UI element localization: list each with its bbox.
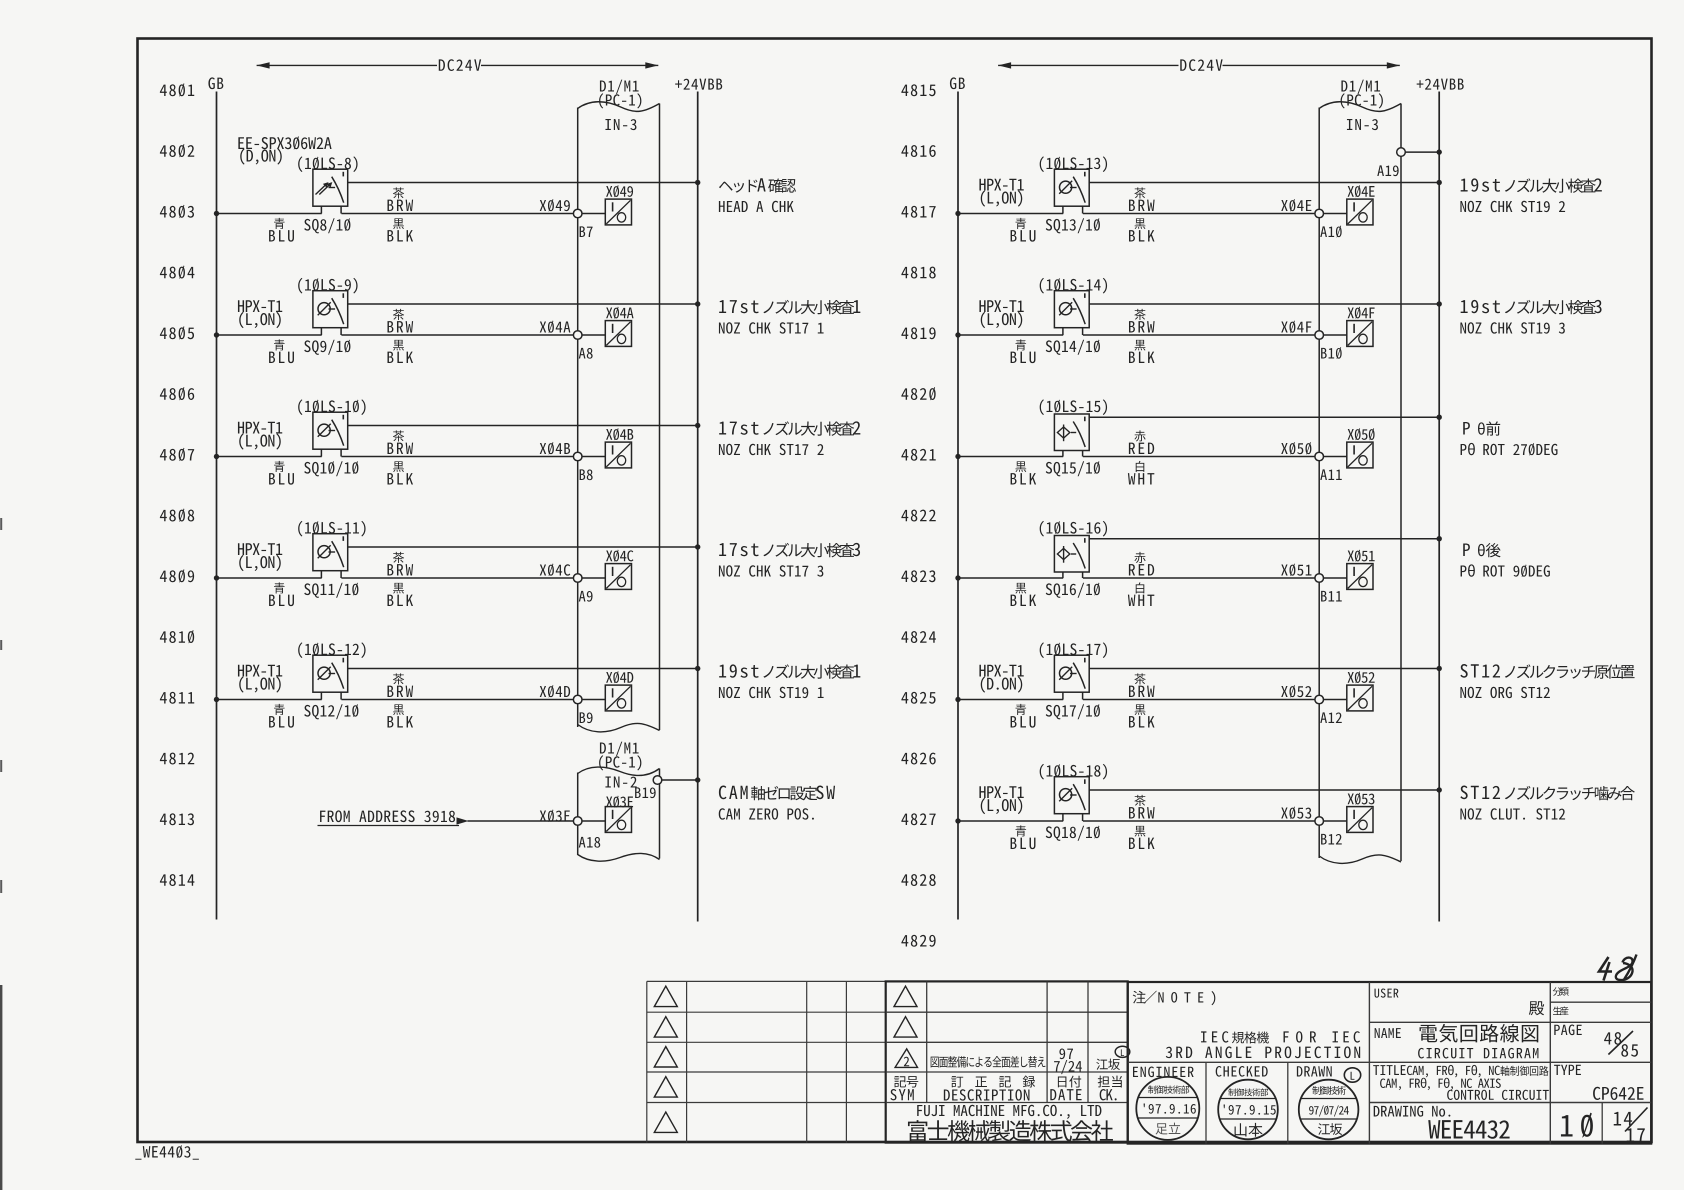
sensor SQ18/10 ((10LS-18)) bbox=[1054, 777, 1089, 814]
node line number 4826 bbox=[901, 753, 935, 765]
net description NOZ CHK ST17 2 bbox=[719, 422, 758, 435]
wire color label 茶/BRW bbox=[1134, 309, 1145, 320]
class cells 分類 生産 bbox=[1553, 987, 1569, 996]
wire color label 茶/BRW bbox=[1134, 795, 1145, 806]
wire rung SQ10/10 left segment bbox=[217, 456, 322, 458]
wire rung SQ17/10 left segment bbox=[958, 699, 1063, 701]
label HPX-T1 bbox=[238, 665, 282, 677]
sensor SQ11/10 ((10LS-11)) bbox=[313, 534, 348, 571]
node line number 4808 bbox=[160, 509, 194, 522]
wire X04B to input box bbox=[582, 456, 605, 458]
wire rung SQ17/10 right segment bbox=[1083, 699, 1315, 701]
sheet fraction 14/17 bbox=[1614, 1112, 1632, 1126]
label (L,ON) bbox=[239, 676, 280, 692]
page cell PAGE 48/85 bbox=[1554, 1025, 1581, 1036]
wire rung SQ10/10 right segment bbox=[341, 456, 573, 458]
node line number 4801 bbox=[160, 83, 194, 96]
name cell 電気回路線図 CIRCUIT DIAGRAM bbox=[1375, 1028, 1401, 1038]
label (L,ON) bbox=[981, 190, 1022, 206]
wire color label 黒/BLK bbox=[1015, 461, 1026, 472]
value label X051 bbox=[1348, 550, 1375, 562]
PLC input point X051 (I/O symbol) bbox=[1347, 564, 1373, 590]
wire color label 白/WHT bbox=[1136, 461, 1145, 472]
wire color label 赤/RED bbox=[1134, 552, 1145, 563]
revision circled mark bbox=[1115, 1046, 1130, 1057]
node line number 4806 bbox=[160, 387, 194, 400]
PLC input point X053 (I/O symbol) bbox=[1347, 807, 1373, 833]
wire rung SQ15/10 right segment bbox=[1083, 456, 1315, 458]
junction at +24VBB rail bbox=[695, 666, 700, 671]
wire color label 青/BLU bbox=[274, 339, 285, 350]
net description NOZ CHK ST19 1 bbox=[719, 664, 758, 677]
wire X04C to input box bbox=[582, 577, 605, 579]
stamp cell DRAWN bbox=[1297, 1066, 1332, 1076]
net description CAM ZERO POS. bbox=[719, 786, 748, 800]
note 3RD ANGLE PROJECTION bbox=[1166, 1046, 1360, 1058]
label IN-3 bbox=[1347, 119, 1378, 130]
wire branch to +24VBB bbox=[1089, 538, 1439, 540]
wire X050 to input box bbox=[1324, 456, 1347, 458]
label (L,ON) bbox=[239, 312, 280, 328]
revision triangles left bbox=[654, 986, 677, 1006]
wire color label 茶/BRW bbox=[1134, 673, 1145, 684]
node line number 4828 bbox=[901, 874, 935, 886]
sensor SQ12/10 ((10LS-12)) bbox=[313, 655, 348, 692]
node X04D input circle bbox=[573, 695, 582, 704]
value label X03E bbox=[606, 796, 633, 808]
type cell TYPE CP642E bbox=[1554, 1065, 1581, 1075]
wire branch to +24VBB bbox=[1089, 668, 1439, 670]
node GB bbox=[208, 77, 223, 89]
node X04E input circle bbox=[1315, 209, 1324, 218]
PLC input point X050 (I/O symbol) bbox=[1347, 442, 1373, 468]
wire X049 to input box bbox=[582, 213, 605, 215]
junction at +24VBB rail bbox=[695, 180, 700, 185]
wire color label 青/BLU bbox=[1016, 704, 1027, 715]
net description HEAD A CHK bbox=[719, 180, 758, 193]
label HPX-T1 bbox=[979, 665, 1023, 677]
wire X04A to input box bbox=[582, 334, 605, 336]
sensor SQ13/10 ((10LS-13)) bbox=[1054, 169, 1089, 206]
wire rung SQ18/10 left segment bbox=[958, 820, 1063, 822]
node line number 4829 bbox=[901, 935, 935, 947]
label SQ10/10 bbox=[304, 461, 358, 476]
junction at GB bus bbox=[955, 332, 960, 337]
pin number B11 bbox=[1321, 591, 1342, 602]
label HPX-T1 bbox=[238, 300, 282, 312]
wire from address 3918 bbox=[320, 810, 455, 822]
pin number B12 bbox=[1321, 834, 1342, 845]
node line number 4816 bbox=[901, 145, 935, 157]
PLC input point X04F (I/O symbol) bbox=[1347, 321, 1373, 347]
wire color label 黒/BLK bbox=[1135, 704, 1146, 715]
node X03E input circle bbox=[573, 817, 582, 826]
wire branch to +24VBB bbox=[1089, 789, 1439, 791]
wire label X051 bbox=[1281, 564, 1311, 577]
wire rung SQ16/10 left segment bbox=[958, 577, 1063, 579]
label EE-SPX306W2A bbox=[238, 136, 331, 149]
value label X049 bbox=[606, 185, 633, 197]
node line number 4825 bbox=[901, 692, 935, 704]
wire color label 黒/BLK bbox=[393, 461, 404, 472]
power rail +24VBB label bbox=[1417, 79, 1464, 90]
node line number 4820 bbox=[901, 387, 935, 400]
net description Pθ ROT 90DEG bbox=[1463, 544, 1470, 556]
wire label X04A bbox=[540, 321, 571, 334]
wire branch to +24VBB bbox=[1089, 303, 1439, 305]
wire color label 黒/BLK bbox=[1135, 218, 1146, 229]
wire B19 to +24VBB bbox=[662, 779, 698, 781]
node line number 4804 bbox=[160, 266, 195, 279]
junction at GB bus bbox=[955, 818, 960, 823]
node X04B input circle bbox=[573, 452, 582, 461]
pin number A18 bbox=[579, 837, 600, 848]
wire rung SQ18/10 right segment bbox=[1083, 820, 1315, 822]
wire color label 黒/BLK bbox=[393, 704, 404, 715]
PLC input point X04E (I/O symbol) bbox=[1347, 199, 1373, 225]
junction at +24VBB rail bbox=[1437, 666, 1442, 671]
label SQ11/10 bbox=[304, 583, 358, 598]
wire label X053 bbox=[1281, 807, 1311, 820]
wire color label 青/BLU bbox=[274, 218, 285, 229]
pin number A19 bbox=[1377, 165, 1398, 176]
sheet number 10 bbox=[1561, 1115, 1573, 1136]
junction at GB bus bbox=[214, 211, 219, 216]
junction at +24VBB rail bbox=[695, 301, 700, 306]
wire label X049 bbox=[540, 199, 570, 212]
label (10LS-8) bbox=[298, 156, 357, 172]
value label X04A bbox=[606, 307, 633, 319]
pin number A9 bbox=[579, 591, 593, 602]
label HPX-T1 bbox=[238, 422, 282, 434]
junction at GB bus bbox=[955, 697, 960, 702]
node line number 4821 bbox=[901, 449, 935, 461]
node X052 input circle bbox=[1315, 695, 1324, 704]
label SQ15/10 bbox=[1046, 461, 1100, 476]
stamp CHECKED circle bbox=[1218, 1080, 1278, 1140]
junction at GB bus bbox=[955, 211, 960, 216]
label (10LS-11) bbox=[298, 521, 365, 537]
junction at +24VBB rail bbox=[695, 544, 700, 549]
power rail +24VBB (right vertical) bbox=[697, 92, 699, 922]
pin number A8 bbox=[579, 348, 593, 359]
stamp DRAWN circle bbox=[1299, 1080, 1359, 1140]
power label DC24V with span arrows bbox=[998, 64, 1178, 66]
wire X04F to input box bbox=[1324, 334, 1347, 336]
wire branch to +24VBB bbox=[348, 668, 698, 670]
junction at +24VBB rail bbox=[695, 423, 700, 428]
handwritten page number 48 bbox=[1599, 957, 1612, 981]
node line number 4809 bbox=[160, 569, 194, 582]
label (10LS-10) bbox=[298, 399, 365, 415]
wire color label 赤/RED bbox=[1134, 430, 1145, 441]
wire color label 茶/BRW bbox=[393, 309, 404, 320]
wire label X03E bbox=[540, 810, 570, 823]
wire color label 茶/BRW bbox=[393, 552, 404, 563]
node X050 input circle bbox=[1315, 452, 1324, 461]
wire label X04D bbox=[540, 685, 570, 698]
label D1/M1 (PC-1) IN-2 bbox=[600, 742, 639, 757]
wire A19 to +24VBB bbox=[1405, 151, 1439, 153]
label HPX-T1 bbox=[979, 786, 1023, 798]
label (10LS-12) bbox=[298, 642, 365, 658]
wire X04D to input box bbox=[582, 699, 605, 701]
label SQ18/10 bbox=[1046, 826, 1100, 841]
junction at GB bus bbox=[214, 454, 219, 459]
node X04A input circle bbox=[573, 331, 582, 340]
wire color label 黒/BLK bbox=[393, 340, 404, 351]
node X051 input circle bbox=[1315, 574, 1324, 583]
value label X04E bbox=[1348, 185, 1375, 197]
label SQ9/10 bbox=[304, 340, 350, 355]
pin number A11 bbox=[1320, 469, 1341, 480]
label (D.ON) bbox=[981, 676, 1022, 692]
wire rung SQ11/10 left segment bbox=[217, 577, 322, 579]
wire rung SQ16/10 right segment bbox=[1083, 577, 1315, 579]
pin number B8 bbox=[580, 469, 593, 480]
wire color label 青/BLU bbox=[274, 461, 285, 472]
sensor SQ10/10 ((10LS-10)) bbox=[313, 412, 348, 449]
value label X04F bbox=[1348, 307, 1375, 319]
wire color label 黒/BLK bbox=[1135, 340, 1146, 351]
header 記号 SYM bbox=[894, 1076, 918, 1088]
wire X053 to input box bbox=[1324, 820, 1347, 822]
value label X053 bbox=[1348, 793, 1375, 805]
wire label X050 bbox=[1281, 442, 1311, 455]
junction at GB bus bbox=[955, 575, 960, 580]
scan edge artifacts bbox=[0, 985, 2, 1190]
wire color label 青/BLU bbox=[1016, 339, 1027, 350]
net description NOZ CLUT. ST12 bbox=[1460, 786, 1500, 800]
sensor SQ9/10 ((10LS-9)) bbox=[313, 291, 348, 328]
PLC input point X049 (I/O symbol) bbox=[605, 199, 631, 225]
net description NOZ ORG ST12 bbox=[1460, 664, 1500, 678]
wire X052 to input box bbox=[1324, 699, 1347, 701]
wire X03E to input box bbox=[582, 820, 605, 822]
stamp cell ENGINEER bbox=[1133, 1067, 1194, 1078]
wire label X04E bbox=[1281, 199, 1311, 212]
wire rung SQ13/10 left segment bbox=[958, 213, 1063, 215]
title block frame bbox=[1128, 982, 1652, 1144]
label HPX-T1 bbox=[238, 543, 282, 555]
revision CK 江坂 bbox=[1096, 1059, 1120, 1070]
label (10LS-18) bbox=[1040, 764, 1107, 780]
node GB bbox=[950, 77, 965, 89]
wire rung SQ14/10 left segment bbox=[958, 334, 1063, 336]
wire color label 青/BLU bbox=[274, 704, 285, 715]
PLC module D1/M1 (PC-1) IN-2 box bbox=[577, 773, 579, 856]
user cell bbox=[1375, 989, 1399, 998]
value label X050 bbox=[1348, 428, 1375, 440]
label (10LS-17) bbox=[1040, 642, 1107, 658]
junction at +24VBB rail bbox=[1437, 180, 1442, 185]
header 日付 DATE bbox=[1058, 1076, 1081, 1088]
sensor SQ15/10 ((10LS-15)) bbox=[1054, 414, 1089, 451]
wire color label 茶/BRW bbox=[393, 673, 404, 684]
wire color label 黒/BLK bbox=[393, 583, 404, 594]
value label X04C bbox=[606, 550, 633, 562]
sensor SQ8/10 ((10LS-8)) bbox=[313, 169, 348, 206]
junction at +24VBB rail bbox=[1437, 415, 1442, 420]
net description NOZ CHK ST17 1 bbox=[719, 300, 758, 313]
label SQ16/10 bbox=[1046, 583, 1100, 598]
PLC module D1/M1 (PC-1) IN-3 box bbox=[577, 108, 579, 728]
note header 注/NOTE) bbox=[1133, 991, 1146, 1004]
label SQ17/10 bbox=[1046, 704, 1100, 719]
wire rung SQ12/10 right segment bbox=[341, 699, 573, 701]
sensor SQ16/10 ((10LS-16)) bbox=[1054, 536, 1089, 573]
revision table middle bbox=[886, 981, 1128, 1142]
label (L,ON) bbox=[981, 798, 1022, 814]
wire X04E to input box bbox=[1324, 213, 1347, 215]
node line number 4807 bbox=[160, 448, 194, 461]
node X04C input circle bbox=[573, 574, 582, 583]
note IEC規格機 FOR IEC bbox=[1201, 1031, 1228, 1042]
label (10LS-13) bbox=[1040, 156, 1107, 172]
wire X051 to input box bbox=[1324, 577, 1347, 579]
wire branch to +24VBB bbox=[348, 303, 698, 305]
wire label X052 bbox=[1281, 685, 1311, 698]
power rail +24VBB (right vertical) bbox=[1438, 92, 1440, 922]
wire color label 黒/BLK bbox=[393, 218, 404, 229]
node line number 4822 bbox=[901, 510, 935, 522]
PLC input point X04D (I/O symbol) bbox=[605, 685, 631, 711]
node line number 4811 bbox=[160, 692, 194, 704]
wire branch to +24VBB bbox=[1089, 182, 1439, 184]
stamp ENGINEER circle bbox=[1136, 1077, 1199, 1140]
wire branch to +24VBB bbox=[348, 182, 698, 184]
node line number 4818 bbox=[901, 267, 935, 279]
node line number 4815 bbox=[901, 84, 935, 96]
net description NOZ CHK ST19 3 bbox=[1461, 300, 1500, 313]
wire label X04F bbox=[1281, 321, 1311, 334]
junction at +24VBB rail bbox=[1437, 149, 1442, 154]
label SQ8/10 bbox=[304, 218, 350, 233]
junction at +24VBB rail bbox=[1437, 536, 1442, 541]
sensor SQ17/10 ((10LS-17)) bbox=[1054, 655, 1089, 692]
wire rung SQ15/10 left segment bbox=[958, 456, 1063, 458]
node line number 4817 bbox=[901, 206, 935, 218]
pin number B7 bbox=[580, 226, 593, 237]
wire color label 茶/BRW bbox=[1134, 187, 1145, 198]
label HPX-T1 bbox=[979, 300, 1023, 312]
net description NOZ CHK ST19 2 bbox=[1461, 178, 1500, 191]
wire color label 青/BLU bbox=[1016, 825, 1027, 836]
pin number B10 bbox=[1321, 347, 1342, 359]
node line number 4812 bbox=[160, 753, 194, 765]
header 訂正記録 DESCRIPTION bbox=[951, 1076, 1035, 1088]
PLC input point X052 (I/O symbol) bbox=[1347, 685, 1373, 711]
wire branch to +24VBB bbox=[348, 425, 698, 427]
maker name FUJI MACHINE MFG.CO., LTD bbox=[917, 1105, 1101, 1119]
drawing number cell bbox=[1374, 1106, 1451, 1117]
wire branch to +24VBB bbox=[1089, 416, 1439, 418]
wire rung SQ9/10 right segment bbox=[341, 334, 573, 336]
junction at GB bus bbox=[214, 697, 219, 702]
revision date 97 7/24 bbox=[1059, 1048, 1073, 1059]
wire rung SQ8/10 right segment bbox=[341, 213, 573, 215]
label (10LS-16) bbox=[1040, 521, 1107, 537]
revision table left bbox=[646, 981, 648, 1142]
node line number 4805 bbox=[160, 326, 194, 339]
wire rung SQ9/10 left segment bbox=[217, 334, 322, 336]
power rail GB bus (left vertical) bbox=[216, 92, 218, 920]
label (L,ON) bbox=[981, 312, 1022, 328]
pin number B19 bbox=[635, 787, 656, 798]
label HPX-T1 bbox=[979, 179, 1023, 191]
node X04F input circle bbox=[1315, 331, 1324, 340]
revision 2 triangle bbox=[895, 1049, 917, 1068]
wire label X04B bbox=[540, 442, 570, 455]
node X053 input circle bbox=[1315, 817, 1324, 826]
junction at GB bus bbox=[955, 454, 960, 459]
label D1/M1 (PC-1) bbox=[1341, 80, 1380, 95]
PLC input point X03E (I/O symbol) bbox=[605, 807, 631, 833]
label (10LS-15) bbox=[1040, 399, 1107, 415]
wire rung SQ12/10 left segment bbox=[217, 699, 322, 701]
node line number 4810 bbox=[160, 630, 194, 643]
wire color label 黒/BLK bbox=[1135, 826, 1146, 837]
drawn circled L bbox=[1344, 1068, 1360, 1082]
wire rung SQ14/10 right segment bbox=[1083, 334, 1315, 336]
wire color label 茶/BRW bbox=[393, 187, 404, 198]
label (L,ON) bbox=[239, 433, 280, 449]
node A19 circle bbox=[1397, 148, 1406, 157]
net description NOZ CHK ST17 3 bbox=[719, 543, 758, 556]
PLC input point X04C (I/O symbol) bbox=[605, 564, 631, 590]
wire rung SQ13/10 right segment bbox=[1083, 213, 1315, 215]
value label X04D bbox=[606, 671, 633, 683]
sensor SQ14/10 ((10LS-14)) bbox=[1054, 291, 1089, 328]
node line number 4827 bbox=[901, 813, 935, 825]
pin number A12 bbox=[1320, 712, 1341, 723]
node B19 circle bbox=[653, 776, 662, 785]
wire color label 青/BLU bbox=[1016, 218, 1027, 229]
PLC input point X04A (I/O symbol) bbox=[605, 321, 631, 347]
node line number 4823 bbox=[901, 570, 935, 582]
label (D,ON) bbox=[240, 148, 281, 164]
wire color label 白/WHT bbox=[1136, 582, 1145, 593]
maker name 富士機械製造株式会社 bbox=[908, 1120, 1113, 1141]
wire branch to +24VBB bbox=[348, 546, 698, 548]
wire label X04C bbox=[540, 564, 571, 577]
label (10LS-14) bbox=[1040, 278, 1107, 294]
header 担当 CK bbox=[1098, 1076, 1122, 1088]
net description Pθ ROT 270DEG bbox=[1463, 422, 1470, 434]
value label X052 bbox=[1348, 671, 1375, 683]
node line number 4802 bbox=[160, 144, 194, 157]
wire rung SQ8/10 left segment bbox=[217, 213, 322, 215]
pin number B9 bbox=[580, 712, 593, 723]
pin number A10 bbox=[1320, 225, 1341, 237]
node X049 input circle bbox=[573, 209, 582, 218]
junction at GB bus bbox=[214, 575, 219, 580]
PLC module D1/M1 (PC-1) IN-3 box bbox=[1318, 108, 1320, 859]
junction at GB bus bbox=[214, 332, 219, 337]
value label X04B bbox=[606, 428, 633, 440]
wire rung SQ11/10 right segment bbox=[341, 577, 573, 579]
label (L,ON) bbox=[239, 555, 280, 571]
label SQ14/10 bbox=[1046, 340, 1100, 355]
revision triangles middle bbox=[894, 986, 917, 1006]
label (10LS-9) bbox=[298, 278, 357, 294]
title cell TITLE CAM FR0 F0 NC bbox=[1373, 1065, 1405, 1075]
node line number 4819 bbox=[901, 327, 935, 339]
stamp cell CHECKED bbox=[1216, 1066, 1268, 1077]
node line number 4824 bbox=[901, 631, 936, 643]
label SQ13/10 bbox=[1046, 218, 1100, 233]
power label DC24V with span arrows bbox=[257, 64, 437, 66]
